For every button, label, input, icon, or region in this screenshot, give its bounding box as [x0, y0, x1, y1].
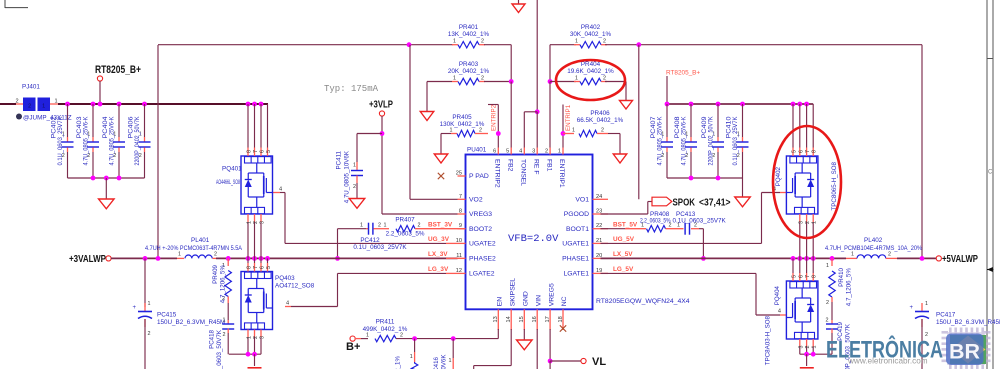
svg-text:13: 13 — [493, 316, 499, 322]
svg-text:2: 2 — [400, 333, 403, 339]
svg-text:7: 7 — [253, 266, 259, 269]
svg-text:Typ: 175mA: Typ: 175mA — [324, 84, 379, 94]
svg-text:VO2: VO2 — [469, 197, 483, 204]
svg-text:24: 24 — [596, 194, 602, 200]
svg-text:PR405: PR405 — [452, 114, 472, 121]
svg-text:VL: VL — [592, 356, 606, 368]
svg-text:RT8205_B+: RT8205_B+ — [666, 70, 700, 77]
svg-text:VREG3: VREG3 — [469, 211, 492, 218]
svg-text:7: 7 — [253, 150, 259, 153]
svg-text:5: 5 — [792, 275, 798, 278]
svg-text:VFB=2.0V: VFB=2.0V — [508, 233, 559, 245]
svg-text:FB2: FB2 — [506, 159, 513, 172]
svg-text:5: 5 — [792, 150, 798, 153]
svg-text:6: 6 — [260, 150, 266, 153]
svg-text:4: 4 — [519, 149, 522, 155]
svg-text:PQ402: PQ402 — [775, 166, 782, 186]
svg-text:1: 1 — [366, 333, 369, 339]
svg-text:P PAD: P PAD — [469, 173, 489, 180]
svg-text:330K_0402_1%: 330K_0402_1% — [395, 356, 402, 369]
svg-text:1: 1 — [575, 39, 578, 45]
svg-text:4.7U_0805_25V6-K: 4.7U_0805_25V6-K — [109, 116, 116, 166]
svg-text:LX_5V: LX_5V — [613, 251, 633, 258]
svg-text:2: 2 — [888, 252, 891, 258]
svg-text:LG_5V: LG_5V — [613, 266, 634, 273]
svg-text:4.7U_0805_25V6-K: 4.7U_0805_25V6-K — [681, 116, 688, 166]
svg-text:UGATE1: UGATE1 — [562, 241, 589, 248]
svg-text:PC416: PC416 — [433, 356, 440, 369]
svg-text:+3VALWP: +3VALWP — [69, 254, 106, 265]
svg-text:0.1U_0603_25V7K: 0.1U_0603_25V7K — [732, 116, 739, 166]
svg-text:+3VLP: +3VLP — [369, 100, 393, 111]
svg-text:2: 2 — [479, 128, 482, 134]
svg-text:EN: EN — [497, 297, 504, 307]
svg-text:2: 2 — [603, 39, 606, 45]
svg-text:3: 3 — [260, 336, 266, 339]
svg-text:PQ403: PQ403 — [275, 275, 295, 282]
svg-text:0.1U_0603_25V7K: 0.1U_0603_25V7K — [673, 218, 727, 225]
svg-text:PR406: PR406 — [590, 110, 610, 117]
svg-text:1: 1 — [826, 263, 829, 269]
svg-text:150U_B2_6.3VM_R45M: 150U_B2_6.3VM_R45M — [157, 319, 225, 326]
svg-text:499K_0402_1%: 499K_0402_1% — [363, 326, 408, 333]
svg-text:ENTRIP1: ENTRIP1 — [565, 104, 572, 131]
svg-text:4.7_1206_5%: 4.7_1206_5% — [846, 268, 853, 307]
svg-text:2: 2 — [418, 223, 421, 229]
svg-text:18: 18 — [558, 316, 564, 322]
svg-text:2200P_0402_50V7K: 2200P_0402_50V7K — [134, 116, 141, 166]
svg-text:3: 3 — [532, 149, 535, 155]
svg-text:BST_3V: BST_3V — [428, 221, 453, 228]
svg-text:4.7U_0805_25V6-K: 4.7U_0805_25V6-K — [83, 116, 90, 166]
svg-text:1: 1 — [178, 252, 181, 258]
svg-text:14: 14 — [506, 316, 512, 322]
svg-text:BR: BR — [949, 340, 980, 364]
svg-text:PR410: PR410 — [838, 267, 845, 286]
svg-text:1: 1 — [223, 318, 226, 324]
svg-text:2: 2 — [603, 76, 606, 82]
svg-text:25: 25 — [456, 171, 462, 177]
svg-text:5: 5 — [266, 150, 272, 153]
svg-text:PR409: PR409 — [212, 264, 219, 283]
svg-text:2: 2 — [253, 221, 259, 224]
svg-text:2: 2 — [481, 39, 484, 45]
svg-text:6: 6 — [493, 149, 496, 155]
svg-text:PU401: PU401 — [467, 147, 487, 154]
svg-text:13K_0402_1%: 13K_0402_1% — [448, 31, 490, 38]
svg-text:UGATE2: UGATE2 — [469, 241, 496, 248]
svg-text:LG_3V: LG_3V — [428, 266, 449, 273]
svg-text:1: 1 — [812, 221, 818, 224]
svg-text:1: 1 — [148, 301, 151, 307]
svg-text:SKIPSEL: SKIPSEL — [509, 278, 516, 307]
svg-text:PC411: PC411 — [335, 150, 342, 169]
svg-text:B+: B+ — [346, 341, 360, 353]
svg-text:17: 17 — [545, 316, 551, 322]
svg-text:5: 5 — [506, 149, 509, 155]
svg-text:NC: NC — [561, 296, 568, 306]
svg-text:PHASE1: PHASE1 — [562, 256, 589, 263]
svg-text:BOOT1: BOOT1 — [566, 226, 589, 233]
svg-text:1: 1 — [453, 39, 456, 45]
svg-text:2: 2 — [805, 221, 811, 224]
svg-text:8: 8 — [459, 209, 462, 215]
svg-text:TONSEL: TONSEL — [520, 159, 527, 186]
svg-text:0.1U_0603_25V7K: 0.1U_0603_25V7K — [353, 244, 407, 251]
svg-text:1: 1 — [449, 358, 452, 364]
svg-text:8: 8 — [812, 275, 818, 278]
svg-text:PR402: PR402 — [581, 24, 601, 31]
svg-text:2: 2 — [353, 184, 356, 190]
svg-text:ENTRIP1: ENTRIP1 — [558, 159, 565, 188]
svg-text:LX_3V: LX_3V — [428, 251, 448, 258]
svg-text:1: 1 — [42, 104, 45, 110]
svg-text:7: 7 — [805, 150, 811, 153]
svg-text:7: 7 — [805, 275, 811, 278]
svg-text:VIN: VIN — [535, 295, 542, 306]
svg-text:6: 6 — [798, 150, 804, 153]
svg-text:16: 16 — [532, 316, 538, 322]
svg-text:RT8205_B+: RT8205_B+ — [95, 64, 141, 76]
svg-text:PC415: PC415 — [157, 312, 177, 319]
svg-text:VO1: VO1 — [575, 197, 589, 204]
svg-text:UG_3V: UG_3V — [428, 236, 450, 243]
svg-text:ENTRIP2: ENTRIP2 — [491, 104, 498, 131]
svg-text:66.5K_0402_1%: 66.5K_0402_1% — [577, 117, 624, 124]
svg-text:www.eletronicabr.com: www.eletronicabr.com — [847, 357, 928, 366]
svg-text:VREG5: VREG5 — [548, 283, 555, 306]
svg-text:2: 2 — [253, 336, 259, 339]
svg-text:2: 2 — [481, 76, 484, 82]
svg-text:4: 4 — [778, 309, 781, 315]
svg-text:TPC8A03-H_SO8: TPC8A03-H_SO8 — [765, 315, 772, 365]
svg-text:1: 1 — [812, 346, 818, 349]
svg-text:2200P_0603_50V7K: 2200P_0603_50V7K — [216, 329, 223, 369]
svg-text:5: 5 — [266, 266, 272, 269]
svg-text:2: 2 — [826, 318, 829, 324]
svg-text:1: 1 — [360, 223, 363, 229]
svg-text:2.2_0603_5%: 2.2_0603_5% — [640, 218, 671, 225]
svg-text:8: 8 — [247, 150, 253, 153]
svg-text:8: 8 — [247, 266, 253, 269]
svg-text:2: 2 — [826, 300, 829, 306]
svg-text:1: 1 — [453, 76, 456, 82]
svg-text:PR404: PR404 — [581, 61, 601, 68]
svg-text:PC417: PC417 — [936, 312, 956, 319]
svg-text:3: 3 — [798, 221, 804, 224]
svg-text:PQ401: PQ401 — [222, 166, 242, 173]
svg-text:20K_0402_1%: 20K_0402_1% — [448, 68, 490, 75]
svg-text:4.7U_0805_25V6-K: 4.7U_0805_25V6-K — [657, 116, 664, 166]
svg-text:+5VALWP: +5VALWP — [942, 254, 978, 265]
svg-text:+: + — [909, 305, 913, 311]
svg-text:GND: GND — [523, 291, 530, 306]
svg-text:1: 1 — [54, 99, 57, 105]
svg-text:1: 1 — [410, 354, 413, 360]
svg-text:1: 1 — [247, 221, 253, 224]
svg-text:UG_5V: UG_5V — [613, 236, 635, 243]
svg-text:7: 7 — [459, 194, 462, 200]
svg-text:3: 3 — [798, 346, 804, 349]
svg-text:PL402: PL402 — [864, 237, 883, 244]
svg-text:<37,41>: <37,41> — [699, 197, 731, 209]
svg-text:C: C — [988, 170, 993, 176]
svg-text:PGOOD: PGOOD — [564, 211, 589, 218]
svg-text:15: 15 — [519, 316, 525, 322]
svg-text:LGATE2: LGATE2 — [469, 271, 495, 278]
svg-text:2: 2 — [148, 331, 151, 337]
svg-text:1: 1 — [575, 76, 578, 82]
svg-text:4.7UH_PCMB104E-4R7MS_10A_20%: 4.7UH_PCMB104E-4R7MS_10A_20% — [825, 245, 922, 252]
svg-text:2200P_0402_50V7K: 2200P_0402_50V7K — [708, 116, 715, 166]
svg-text:2: 2 — [28, 104, 31, 110]
svg-text:1: 1 — [247, 336, 253, 339]
svg-text:4: 4 — [286, 301, 289, 307]
svg-text:PR407: PR407 — [395, 217, 415, 224]
svg-text:1: 1 — [851, 252, 854, 258]
svg-text:SPOK: SPOK — [673, 197, 696, 209]
svg-text:FB1: FB1 — [545, 159, 552, 172]
svg-text:150U_B2_6.3VM_R45M: 150U_B2_6.3VM_R45M — [936, 319, 1000, 326]
svg-text:BOOT2: BOOT2 — [469, 226, 492, 233]
svg-text:8: 8 — [812, 150, 818, 153]
svg-text:1: 1 — [572, 128, 575, 134]
svg-text:AO4466L_SO8: AO4466L_SO8 — [216, 179, 240, 186]
svg-text:PQ404: PQ404 — [774, 285, 781, 305]
svg-text:BST_5V: BST_5V — [613, 221, 638, 228]
svg-text:PHASE2: PHASE2 — [469, 256, 496, 263]
svg-text:AO4712_SO8: AO4712_SO8 — [275, 283, 315, 290]
svg-text:0.1U_0603_25V7K: 0.1U_0603_25V7K — [57, 116, 64, 166]
svg-text:4.7_1206_5%: 4.7_1206_5% — [220, 265, 227, 304]
svg-text:4.7UH +-20% PCMC063T-4R7MN 5.5: 4.7UH +-20% PCMC063T-4R7MN 5.5A — [145, 245, 243, 252]
svg-text:PL401: PL401 — [191, 237, 210, 244]
svg-text:2: 2 — [214, 252, 217, 258]
svg-text:PR403: PR403 — [459, 61, 479, 68]
svg-text:RE F: RE F — [532, 159, 539, 174]
svg-text:ENTRIP2: ENTRIP2 — [494, 159, 501, 188]
svg-text:2: 2 — [805, 346, 811, 349]
svg-text:RT8205EGQW_WQFN24_4X4: RT8205EGQW_WQFN24_4X4 — [596, 298, 690, 305]
svg-text:2: 2 — [15, 99, 18, 105]
svg-text:1: 1 — [925, 301, 928, 307]
svg-text:PR401: PR401 — [459, 24, 479, 31]
svg-text:@JUMP_43X11Z: @JUMP_43X11Z — [23, 115, 72, 122]
svg-text:2.2_0603_5%: 2.2_0603_5% — [386, 231, 425, 238]
svg-text:6: 6 — [798, 275, 804, 278]
svg-text:LGATE1: LGATE1 — [563, 271, 589, 278]
svg-text:4.7U_0805_10V6K: 4.7U_0805_10V6K — [344, 150, 351, 203]
svg-text:2200P_0402_50V6K: 2200P_0402_50V6K — [441, 354, 448, 369]
svg-text:30K_0402_1%: 30K_0402_1% — [570, 31, 612, 38]
svg-text:2: 2 — [378, 223, 381, 229]
svg-text:1: 1 — [558, 149, 561, 155]
svg-text:19.6K_0402_1%: 19.6K_0402_1% — [567, 68, 614, 75]
svg-text:3: 3 — [260, 221, 266, 224]
svg-text:2: 2 — [601, 128, 604, 134]
svg-text:1: 1 — [384, 223, 387, 229]
svg-text:TPC8065-H_SO8: TPC8065-H_SO8 — [831, 161, 838, 210]
svg-text:1: 1 — [450, 128, 453, 134]
svg-text:+: + — [132, 305, 136, 311]
svg-text:4: 4 — [279, 187, 282, 193]
svg-text:PC418: PC418 — [209, 329, 216, 348]
svg-text:PR411: PR411 — [376, 319, 395, 326]
svg-text:6: 6 — [260, 266, 266, 269]
svg-text:1: 1 — [353, 163, 356, 169]
svg-text:PJ401: PJ401 — [22, 84, 40, 91]
svg-text:2: 2 — [545, 149, 548, 155]
